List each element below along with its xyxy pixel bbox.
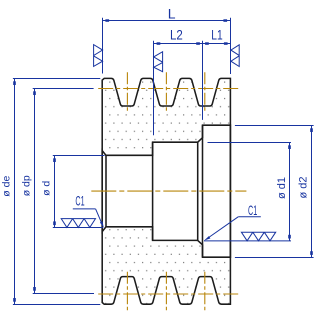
dim dp top extension xyxy=(33,88,94,90)
finish symbol at L left extension xyxy=(94,45,103,67)
dim d2 line xyxy=(311,126,313,258)
dim L left extension xyxy=(102,18,104,74)
finish symbol on d1 extension xyxy=(241,232,275,241)
dim d top extension xyxy=(53,155,105,157)
bore outline xyxy=(102,125,230,257)
svg-text:ø d: ø d xyxy=(40,181,52,196)
svg-text:ø d1: ø d1 xyxy=(276,177,288,199)
groove 2 centerline top xyxy=(165,72,167,111)
bush bore chamfer edge line xyxy=(197,142,199,240)
pulley body section fill xyxy=(102,78,230,304)
dim dp line xyxy=(34,89,36,294)
dim L line xyxy=(103,20,231,22)
groove 3 centerline bottom xyxy=(204,272,206,311)
dim L2 left extension xyxy=(153,41,155,136)
svg-text:L: L xyxy=(168,5,176,21)
finish symbol at L2 left extension xyxy=(154,52,163,72)
svg-text:L2: L2 xyxy=(170,26,183,42)
svg-text:C1: C1 xyxy=(75,192,84,208)
pilot bore chamfer edge line xyxy=(105,155,107,227)
pulley outline xyxy=(102,78,230,304)
bore step face line xyxy=(152,142,154,240)
dim d line xyxy=(54,156,56,228)
dim L2/L1 line xyxy=(154,43,231,45)
groove 1 centerline bottom xyxy=(126,272,128,311)
dim d bottom extension xyxy=(53,227,103,229)
pitch line bottom xyxy=(98,293,239,295)
dim L right extension xyxy=(230,18,232,74)
pitch line top xyxy=(98,88,239,90)
svg-text:ø d2: ø d2 xyxy=(297,176,309,198)
bore void xyxy=(102,125,230,257)
groove 3 centerline top xyxy=(204,72,206,111)
dim d1 bottom extension xyxy=(204,240,291,242)
finish symbol on d extension xyxy=(61,219,95,228)
dim d1 line xyxy=(289,143,291,241)
dim d1 top extension xyxy=(208,142,292,144)
svg-text:ø de: ø de xyxy=(1,176,13,197)
svg-text:L1: L1 xyxy=(211,26,223,42)
svg-text:ø dp: ø dp xyxy=(20,175,32,196)
dim d2 top extension xyxy=(235,125,314,127)
axis centerline xyxy=(91,190,246,192)
dim d2 bottom extension xyxy=(235,257,314,259)
dim de bottom extension xyxy=(13,304,100,306)
dim de line xyxy=(14,79,16,305)
dim de top extension xyxy=(13,78,100,80)
groove 1 centerline top xyxy=(126,72,128,111)
groove 2 centerline bottom xyxy=(165,272,167,311)
dim dp bottom extension xyxy=(33,293,94,295)
recess floor line xyxy=(202,125,204,257)
svg-text:C1: C1 xyxy=(248,202,257,218)
finish symbol at L1 right extension xyxy=(231,45,239,67)
dim L2/L1 shared extension xyxy=(202,41,204,120)
